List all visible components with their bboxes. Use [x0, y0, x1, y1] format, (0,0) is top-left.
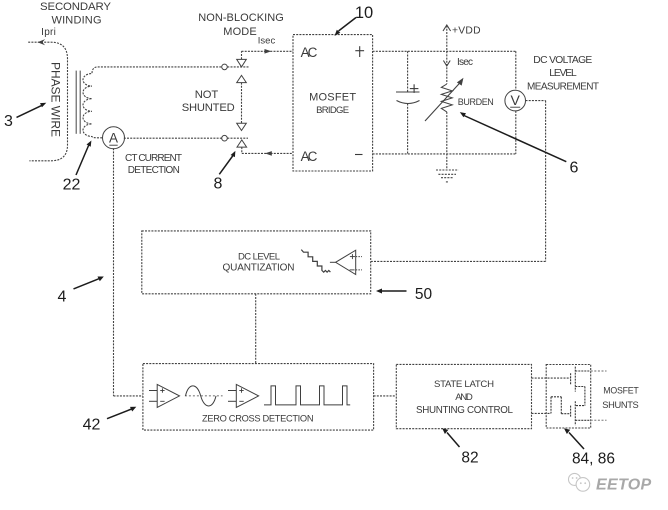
svg-text:SHUNTS: SHUNTS: [602, 400, 639, 410]
svg-text:+VDD: +VDD: [452, 25, 481, 36]
svg-text:DC VOLTAGE: DC VOLTAGE: [533, 55, 592, 66]
svg-text:V: V: [511, 92, 521, 108]
svg-text:8: 8: [214, 176, 223, 193]
svg-text:ZERO CROSS DETECTION: ZERO CROSS DETECTION: [202, 413, 314, 423]
svg-text:DC LEVEL: DC LEVEL: [238, 251, 280, 262]
svg-text:82: 82: [461, 449, 478, 466]
svg-text:3: 3: [4, 113, 13, 130]
svg-text:STATE LATCH: STATE LATCH: [434, 379, 494, 390]
svg-text:6: 6: [570, 159, 579, 176]
svg-text:10: 10: [355, 4, 373, 22]
svg-text:DETECTION: DETECTION: [128, 165, 180, 176]
svg-text:AC: AC: [301, 149, 318, 164]
svg-text:BURDEN: BURDEN: [458, 97, 494, 107]
svg-text:NOT: NOT: [195, 89, 219, 101]
svg-text:42: 42: [83, 417, 101, 434]
svg-text:22: 22: [63, 177, 81, 194]
svg-text:Isec: Isec: [457, 57, 473, 68]
svg-text:AC: AC: [301, 45, 318, 60]
svg-text:AND: AND: [455, 392, 473, 403]
svg-text:SECONDARY: SECONDARY: [40, 1, 111, 13]
svg-text:MODE: MODE: [223, 26, 257, 38]
svg-text:SHUNTED: SHUNTED: [182, 102, 235, 114]
svg-text:SHUNTING CONTROL: SHUNTING CONTROL: [416, 405, 514, 416]
svg-text:84, 86: 84, 86: [572, 451, 615, 468]
svg-text:PHASE WIRE: PHASE WIRE: [49, 62, 63, 137]
svg-text:LEVEL: LEVEL: [549, 68, 577, 79]
svg-text:EETOP: EETOP: [596, 477, 651, 494]
svg-text:MOSFET: MOSFET: [603, 386, 639, 396]
svg-text:MOSFET: MOSFET: [309, 91, 356, 103]
svg-text:CT CURRENT: CT CURRENT: [125, 153, 182, 164]
svg-text:A: A: [109, 131, 118, 146]
svg-text:BRIDGE: BRIDGE: [316, 105, 349, 116]
svg-text:WINDING: WINDING: [52, 14, 102, 26]
svg-text:Ipri: Ipri: [41, 27, 56, 38]
svg-text:MEASUREMENT: MEASUREMENT: [527, 81, 599, 92]
svg-text:NON-BLOCKING: NON-BLOCKING: [198, 12, 284, 24]
svg-text:4: 4: [58, 289, 67, 306]
svg-text:50: 50: [415, 286, 433, 303]
svg-text:QUANTIZATION: QUANTIZATION: [223, 262, 295, 273]
svg-text:Isec: Isec: [258, 35, 276, 46]
